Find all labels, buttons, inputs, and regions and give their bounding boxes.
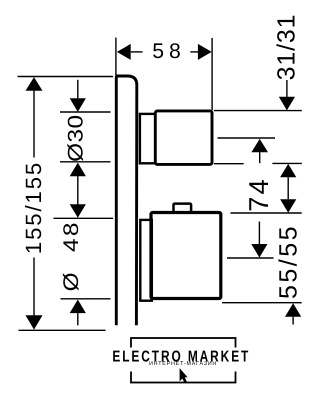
svg-text:155/155: 155/155	[21, 161, 46, 254]
svg-text:ИНТЕРНЕТ-МАГАЗИН: ИНТЕРНЕТ-МАГАЗИН	[149, 361, 217, 367]
svg-text:55/55: 55/55	[274, 224, 302, 299]
svg-text:Ø30: Ø30	[65, 114, 88, 161]
svg-text:58: 58	[152, 40, 186, 63]
svg-text:31/31: 31/31	[273, 14, 301, 81]
svg-text:74: 74	[243, 177, 274, 211]
svg-text:Ø 48: Ø 48	[60, 220, 83, 291]
